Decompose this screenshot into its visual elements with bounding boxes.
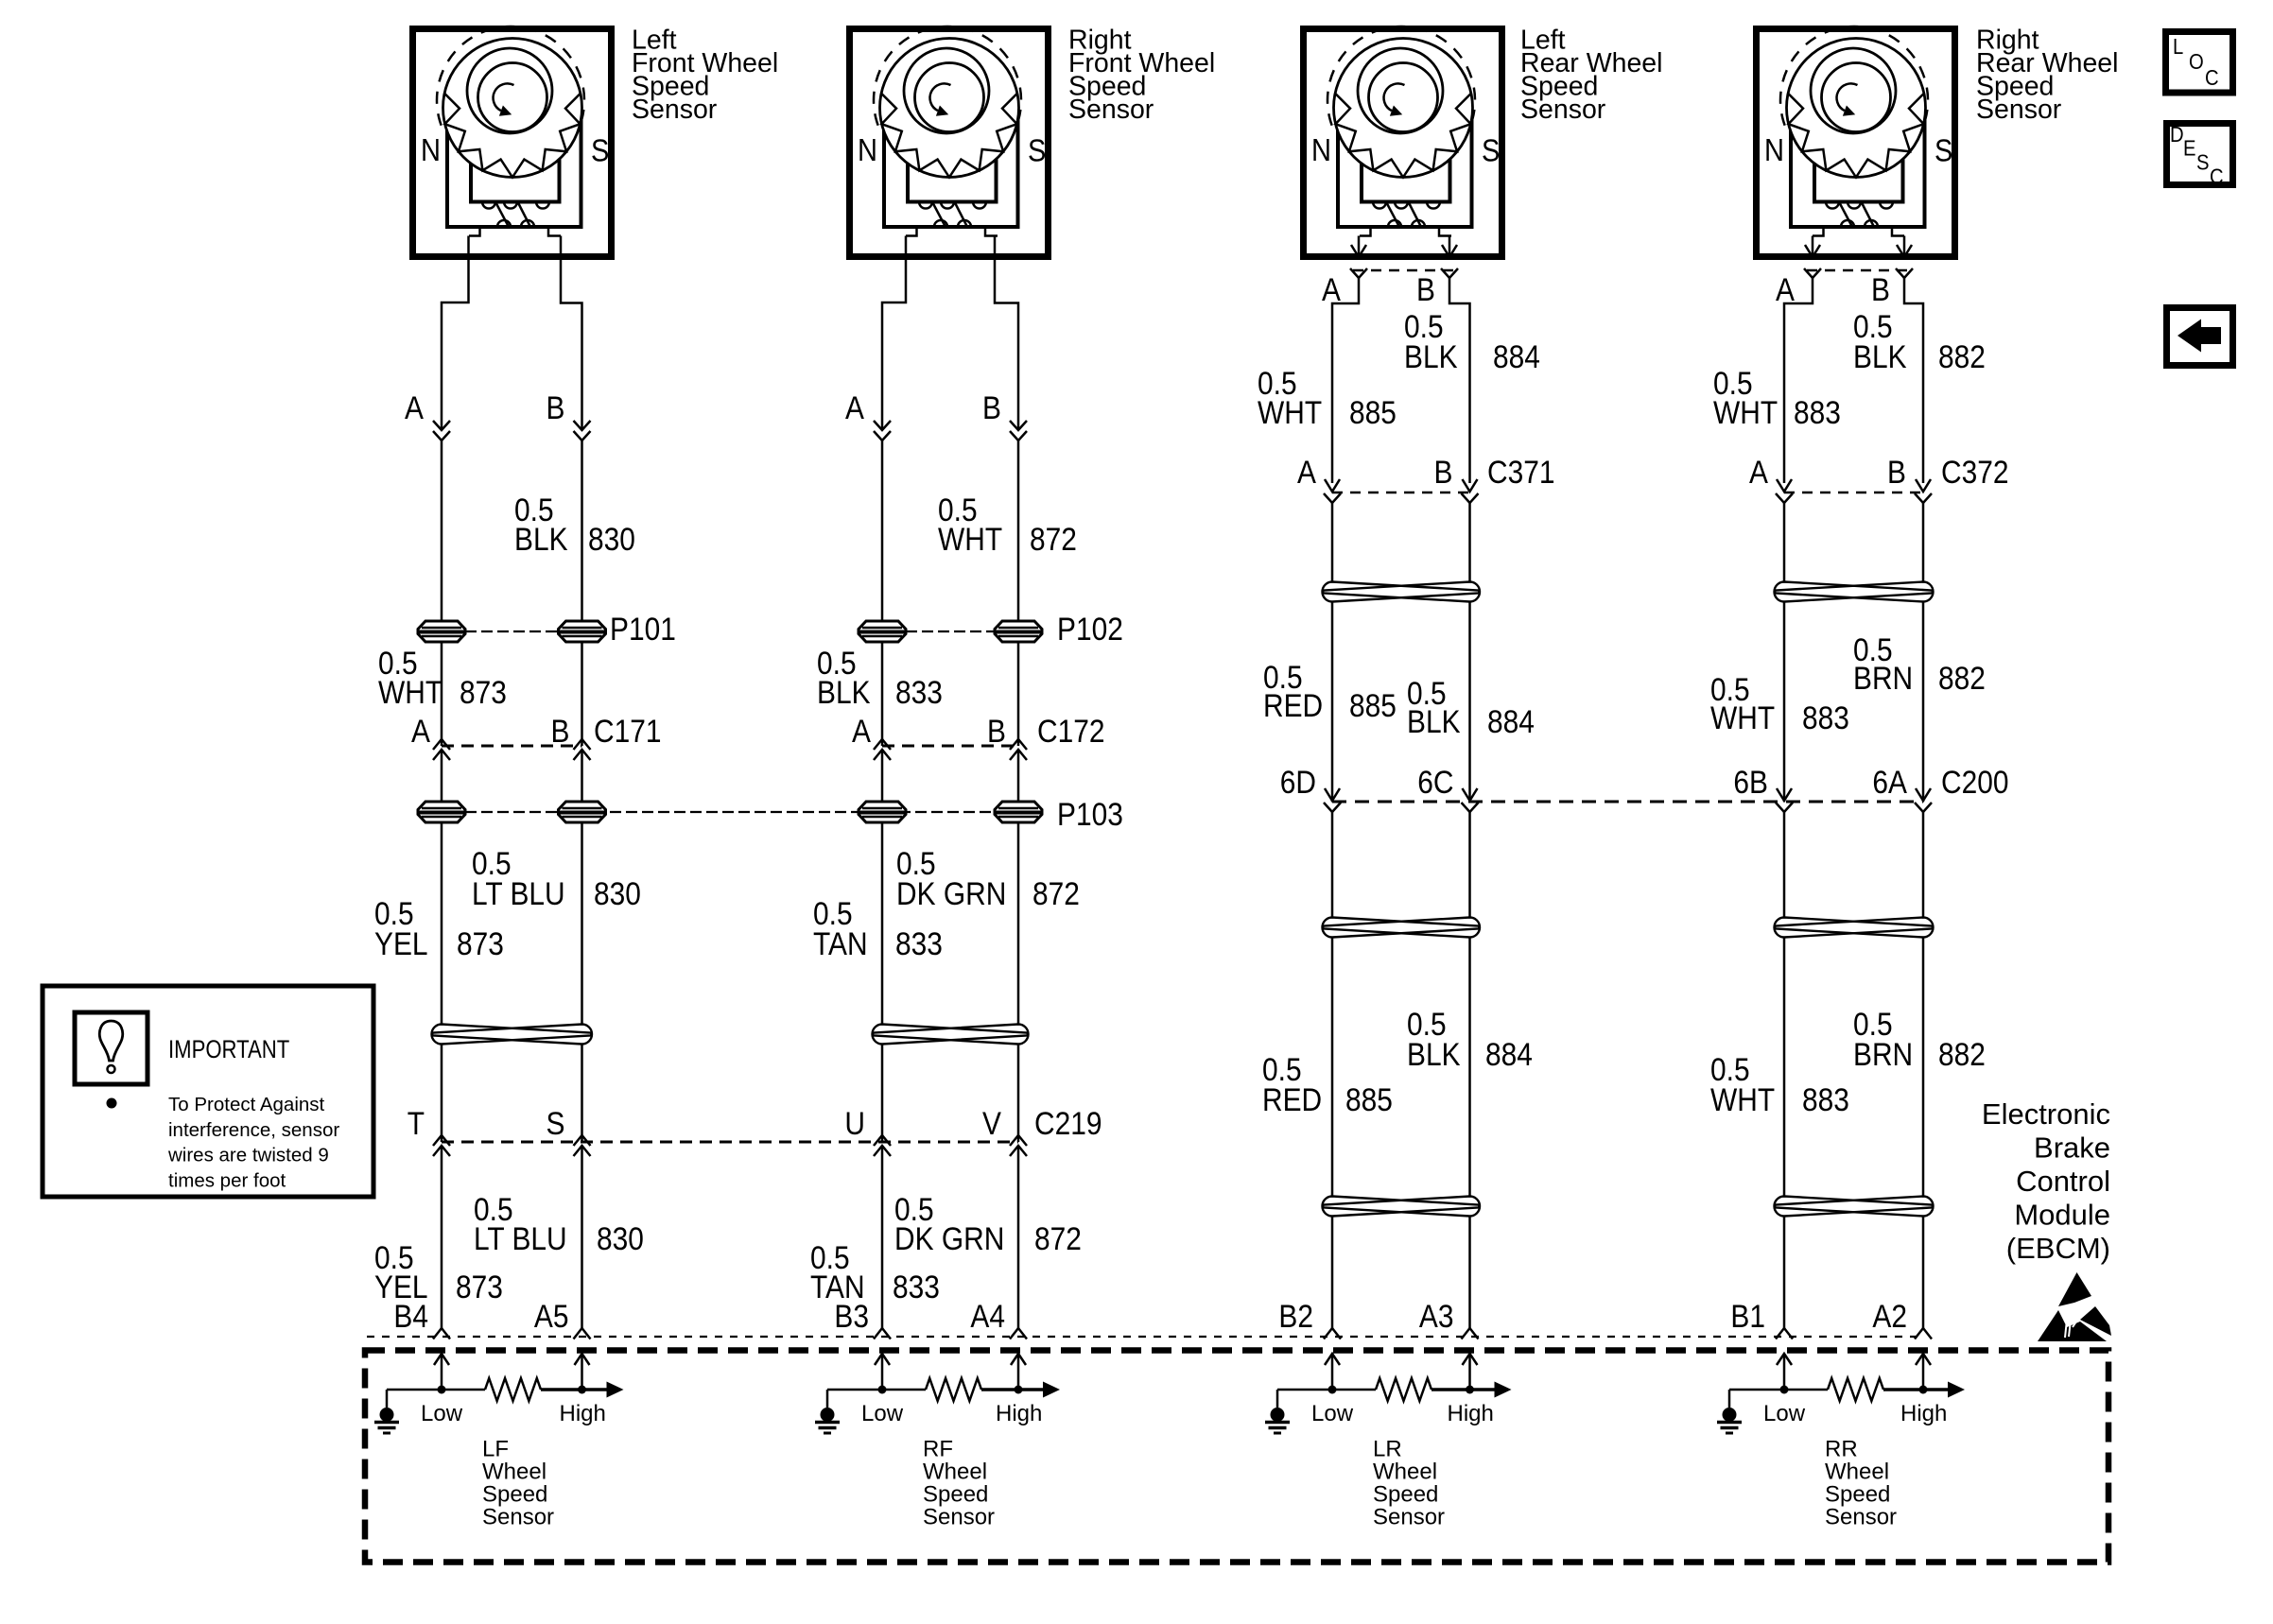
svg-text:Sensor: Sensor bbox=[1520, 95, 1606, 125]
EBCM RF channel label bbox=[923, 1437, 995, 1530]
sensor LR - coil winding bbox=[1373, 202, 1386, 209]
sensor RF - tone wheel bbox=[880, 39, 1019, 178]
EBCM LR ground bbox=[1276, 1390, 1279, 1408]
EBCM pin fork A3 bbox=[1462, 1328, 1479, 1339]
grommet P102 on wire B bbox=[995, 621, 1042, 642]
grommet P101 dashed link bbox=[465, 631, 559, 632]
svg-text:C: C bbox=[2210, 164, 2224, 189]
LR wire A segment to twist 3 bbox=[1331, 938, 1334, 1196]
svg-text:WHT: WHT bbox=[1710, 700, 1775, 735]
RF wire B segment to twist bbox=[1017, 822, 1020, 1024]
svg-text:872: 872 bbox=[1034, 1220, 1082, 1256]
svg-text:N: N bbox=[1311, 132, 1331, 167]
grommet P103 on RF wire A bbox=[859, 802, 906, 822]
svg-text:B: B bbox=[551, 713, 570, 749]
connector C171 terminals wire B bbox=[574, 739, 591, 750]
svg-text:RF: RF bbox=[923, 1437, 953, 1462]
EBCM LF junction node A bbox=[438, 1386, 446, 1394]
sensor LF - coil winding bbox=[482, 202, 495, 209]
LR sensor lead B with arrow bbox=[1449, 236, 1451, 257]
svg-text:873: 873 bbox=[456, 1269, 503, 1304]
sensor RF - title label bbox=[1068, 26, 1215, 126]
svg-text:S: S bbox=[1482, 133, 1500, 168]
IMPORTANT note box bbox=[43, 986, 373, 1197]
EBCM RR junction node B bbox=[1919, 1386, 1928, 1394]
svg-text:B4: B4 bbox=[393, 1298, 428, 1334]
svg-text:Electronic: Electronic bbox=[1982, 1097, 2110, 1131]
svg-text:T: T bbox=[408, 1105, 425, 1141]
LF wire B - sensor lead with jog bbox=[561, 236, 582, 431]
EBCM RF junction node A bbox=[878, 1386, 887, 1394]
svg-text:Wheel: Wheel bbox=[482, 1460, 547, 1485]
RR sensor connector fork A bbox=[1804, 268, 1821, 278]
wheel speed sensor RF - outer box bbox=[850, 29, 1049, 257]
connector C172 terminals wire B bbox=[1010, 739, 1027, 750]
sensor RR - magnet yoke bbox=[1791, 120, 1925, 227]
connector C372 terminal arrows wire B bbox=[1916, 479, 1931, 492]
sensor LR - lead pedestal bbox=[1360, 227, 1371, 236]
svg-text:Speed: Speed bbox=[923, 1482, 988, 1508]
RF wire B segment to P103 bbox=[1017, 750, 1020, 801]
LR wire A segment to twist 1 bbox=[1331, 503, 1334, 581]
RF wire A - sensor lead with jog bbox=[882, 236, 906, 431]
EBCM RF wire resistor to High bbox=[981, 1388, 1043, 1391]
LR sensor connector dashed line bbox=[1353, 269, 1455, 272]
svg-text:BRN: BRN bbox=[1853, 660, 1913, 696]
sensor RF - coil winding bbox=[919, 202, 932, 209]
important icon exclamation bbox=[99, 1021, 122, 1061]
svg-text:E: E bbox=[2183, 135, 2196, 161]
svg-text:C372: C372 bbox=[1941, 454, 2009, 490]
EBCM LF input A arrow bbox=[441, 1356, 443, 1390]
RF wire B segment to C219 bbox=[1017, 1045, 1020, 1142]
sensor LR - tone wheel teeth bbox=[1335, 94, 1471, 178]
sensor LR - rotation arrow bbox=[1384, 83, 1405, 111]
sensor RR - exciter ring (dashed circle) bbox=[1780, 26, 1928, 126]
grommet P103 on LF wire A bbox=[418, 802, 465, 822]
sensor LR - pole core bbox=[1362, 120, 1450, 202]
connector C200 terminal arrows RR wire B bbox=[1916, 788, 1931, 801]
svg-text:TAN: TAN bbox=[813, 925, 868, 961]
LOC legend box bbox=[2166, 32, 2233, 94]
sensor RR - tone wheel teeth bbox=[1788, 94, 1924, 178]
sensor RF - rotation arrow bbox=[930, 83, 951, 111]
sensor LR - hub circles bbox=[1358, 48, 1443, 133]
LR wire A jog bbox=[1332, 278, 1359, 483]
svg-text:883: 883 bbox=[1802, 700, 1849, 735]
LR wire B label BLK 884 bbox=[1407, 675, 1535, 739]
wheel speed sensor LF - outer box bbox=[413, 29, 612, 257]
EBCM pin fork B3 bbox=[874, 1328, 891, 1339]
RR wire B label BRN 882 bbox=[1853, 631, 1986, 696]
EBCM RF High output arrow bbox=[1043, 1382, 1060, 1398]
connector C219 terminals RF wire B bbox=[1010, 1135, 1027, 1146]
EBCM RR input B arrow bbox=[1922, 1356, 1925, 1390]
svg-text:High: High bbox=[996, 1401, 1042, 1426]
EBCM LF input B arrow bbox=[581, 1356, 583, 1390]
grommet P103 long dashed line bbox=[465, 811, 1042, 813]
LR sensor connector fork B bbox=[1441, 268, 1458, 278]
svg-text:WHT: WHT bbox=[938, 521, 1002, 557]
svg-text:WHT: WHT bbox=[1713, 394, 1778, 430]
back arrow icon bbox=[2178, 320, 2221, 353]
svg-text:883: 883 bbox=[1794, 394, 1841, 430]
EBCM RR input A arrow bbox=[1783, 1356, 1786, 1390]
svg-text:Sensor: Sensor bbox=[482, 1505, 554, 1530]
connector C172 terminals wire A bbox=[874, 739, 891, 750]
LF wire B - inline connector arrows bbox=[574, 421, 591, 430]
svg-text:833: 833 bbox=[893, 1269, 940, 1304]
RR wire B segment to twist 3 bbox=[1922, 938, 1925, 1196]
sensor RR - pole core bbox=[1814, 120, 1903, 202]
EBCM RR ground bbox=[1728, 1390, 1731, 1408]
svg-text:B2: B2 bbox=[1278, 1298, 1313, 1334]
svg-text:830: 830 bbox=[588, 521, 635, 557]
EBCM LF channel label bbox=[482, 1437, 554, 1530]
RF wire B - inline connector arrows bbox=[1010, 421, 1027, 430]
svg-text:D: D bbox=[2170, 122, 2184, 147]
svg-text:B3: B3 bbox=[834, 1298, 869, 1334]
EBCM connector pin row (thin dashed line) bbox=[367, 1336, 1919, 1338]
EBCM RR wire resistor to High bbox=[1883, 1388, 1948, 1391]
svg-text:884: 884 bbox=[1487, 703, 1535, 739]
RF wire B segment to C172 bbox=[1017, 642, 1020, 746]
EBCM LF junction node B bbox=[578, 1386, 586, 1394]
LF wire A - sensor lead with jog bbox=[442, 236, 469, 431]
svg-text:LT BLU: LT BLU bbox=[474, 1220, 567, 1256]
svg-text:Sensor: Sensor bbox=[1825, 1505, 1897, 1530]
grommet P103 on LF wire B bbox=[559, 802, 606, 822]
svg-text:S: S bbox=[591, 133, 609, 168]
connector C371 terminal arrows wire A bbox=[1325, 479, 1340, 492]
connector C219 terminals RF wire A bbox=[874, 1135, 891, 1146]
grommet P101 on wire A bbox=[418, 621, 465, 642]
connector C172 dashed line bbox=[882, 745, 1018, 748]
sensor LR - title label bbox=[1520, 26, 1662, 126]
svg-text:A2: A2 bbox=[1872, 1298, 1907, 1334]
LF wire B label LT BLU 830 bbox=[474, 1191, 644, 1256]
svg-text:Wheel: Wheel bbox=[1825, 1460, 1889, 1485]
svg-text:6B: 6B bbox=[1733, 764, 1768, 800]
LF wire B label BLK 830 bbox=[514, 492, 635, 557]
EBCM pin fork B2 bbox=[1324, 1328, 1341, 1339]
svg-text:Sensor: Sensor bbox=[1373, 1505, 1445, 1530]
svg-text:BLK: BLK bbox=[817, 674, 871, 710]
connector C200 terminal arrows LR wire B bbox=[1463, 788, 1478, 801]
connector C171 terminals wire A bbox=[433, 739, 450, 750]
EBCM RR High output arrow bbox=[1948, 1382, 1965, 1398]
wheel speed sensor LR - outer box bbox=[1304, 29, 1502, 257]
LR wire B segment to EBCM pin A3 bbox=[1468, 1217, 1471, 1328]
EBCM LR junction node B bbox=[1466, 1386, 1474, 1394]
svg-text:B: B bbox=[1434, 454, 1453, 490]
EBCM LR input B arrow bbox=[1468, 1356, 1471, 1390]
RR wire A label WHT 883 bbox=[1710, 671, 1849, 735]
RF wire A label TAN 833 bbox=[813, 895, 943, 961]
svg-text:833: 833 bbox=[895, 925, 943, 961]
svg-text:883: 883 bbox=[1802, 1081, 1849, 1117]
EBCM RF junction node B bbox=[1015, 1386, 1023, 1394]
sensor RR - lead pedestal bbox=[1813, 227, 1824, 236]
svg-text:882: 882 bbox=[1938, 1036, 1986, 1072]
EBCM LR input A arrow bbox=[1331, 1356, 1334, 1390]
svg-text:LT BLU: LT BLU bbox=[472, 875, 565, 911]
sensor LR - tone wheel bbox=[1334, 39, 1473, 178]
svg-text:DK GRN: DK GRN bbox=[894, 1220, 1004, 1256]
RR wire B label BRN 882 bbox=[1853, 1006, 1986, 1072]
LR wire B segment to twist 2 bbox=[1468, 812, 1471, 917]
svg-text:(EBCM): (EBCM) bbox=[2006, 1232, 2110, 1265]
RR wire B segment to C200 bbox=[1922, 602, 1925, 802]
grommet P103 on RF wire B bbox=[995, 802, 1042, 822]
RF wire B label DK GRN 872 bbox=[896, 845, 1080, 911]
LF wire A segment to grommet P101 bbox=[441, 441, 443, 621]
svg-text:Sensor: Sensor bbox=[1976, 95, 2062, 125]
svg-text:YEL: YEL bbox=[374, 925, 428, 961]
EBCM RR junction node A bbox=[1780, 1386, 1789, 1394]
svg-text:N: N bbox=[421, 132, 441, 167]
svg-text:B: B bbox=[547, 389, 565, 425]
RF twisted pair symbol bbox=[873, 1025, 1028, 1045]
svg-text:RED: RED bbox=[1263, 687, 1323, 723]
svg-text:Wheel: Wheel bbox=[1373, 1460, 1437, 1485]
RF wire A segment to twist bbox=[881, 822, 884, 1024]
grommet P102 on wire A bbox=[859, 621, 906, 642]
svg-text:To Protect Against: To Protect Against bbox=[168, 1094, 325, 1115]
svg-text:S: S bbox=[1935, 133, 1952, 168]
sensor LF - hub circles bbox=[467, 48, 552, 133]
RR sensor connector dashed line bbox=[1807, 269, 1910, 272]
svg-text:S: S bbox=[547, 1105, 565, 1141]
RR wire A segment to twist 3 bbox=[1783, 938, 1786, 1196]
svg-text:830: 830 bbox=[597, 1220, 644, 1256]
svg-text:Module: Module bbox=[2014, 1199, 2110, 1232]
EBCM LF bus wire bbox=[387, 1389, 485, 1391]
EBCM RF sense resistor bbox=[926, 1378, 981, 1401]
RF wire B segment to EBCM pin A4 bbox=[1017, 1146, 1020, 1328]
EBCM RR sense resistor bbox=[1828, 1378, 1883, 1401]
RR wire A segment to twist 1 bbox=[1783, 503, 1786, 581]
LF wire B segment to P103 bbox=[581, 750, 583, 801]
connector C371 terminal arrows wire B bbox=[1463, 479, 1478, 492]
RF wire A segment to EBCM pin B3 bbox=[881, 1146, 884, 1328]
svg-text:A: A bbox=[1776, 271, 1796, 307]
RR sensor connector fork B bbox=[1896, 268, 1913, 278]
svg-text:RED: RED bbox=[1262, 1081, 1322, 1117]
svg-text:N: N bbox=[858, 132, 877, 167]
LR wire B label BLK 884 bbox=[1404, 308, 1540, 374]
svg-text:DK GRN: DK GRN bbox=[896, 875, 1006, 911]
svg-text:BLK: BLK bbox=[1404, 338, 1458, 374]
svg-text:LR: LR bbox=[1373, 1437, 1402, 1462]
important bullet bbox=[107, 1098, 117, 1109]
svg-text:N: N bbox=[1764, 132, 1784, 167]
svg-text:A: A bbox=[1322, 271, 1342, 307]
connector C171 dashed line bbox=[442, 745, 582, 748]
LF wire A segment to twist bbox=[441, 822, 443, 1024]
svg-text:A: A bbox=[845, 389, 865, 425]
LR wire A segment to twist 2 bbox=[1331, 812, 1334, 917]
sensor RR - hub circles bbox=[1811, 48, 1896, 133]
svg-text:LF: LF bbox=[482, 1437, 509, 1462]
svg-text:BLK: BLK bbox=[1853, 338, 1907, 374]
svg-text:Sensor: Sensor bbox=[1068, 95, 1154, 125]
LR wire B segment to C200 bbox=[1468, 602, 1471, 802]
svg-text:C171: C171 bbox=[594, 713, 662, 749]
svg-text:A: A bbox=[411, 713, 431, 749]
svg-text:A: A bbox=[405, 389, 425, 425]
svg-text:Low: Low bbox=[1311, 1401, 1354, 1426]
svg-text:Speed: Speed bbox=[1373, 1482, 1438, 1508]
EBCM RF bus wire bbox=[827, 1389, 926, 1391]
LF wire A segment to P103 bbox=[441, 750, 443, 801]
svg-text:C200: C200 bbox=[1941, 764, 2009, 800]
LR wire A segment to EBCM pin B2 bbox=[1331, 1217, 1334, 1328]
svg-text:B1: B1 bbox=[1730, 1298, 1765, 1334]
svg-text:885: 885 bbox=[1349, 687, 1397, 723]
sensor RF - lead pedestal bbox=[906, 227, 917, 236]
LF wire B segment to EBCM pin A5 bbox=[581, 1146, 583, 1328]
svg-text:S: S bbox=[2196, 149, 2210, 175]
svg-text:B: B bbox=[987, 713, 1006, 749]
connector C219 dashed line across front columns bbox=[442, 1141, 1018, 1144]
svg-text:6D: 6D bbox=[1280, 764, 1316, 800]
EBCM LF wire resistor to High bbox=[541, 1388, 607, 1391]
connector C219 terminals LF wire A bbox=[433, 1135, 450, 1146]
svg-text:873: 873 bbox=[460, 674, 507, 710]
sensor LF - magnet yoke bbox=[447, 120, 581, 227]
svg-text:A: A bbox=[1749, 454, 1769, 490]
LR twisted pair symbol 2 bbox=[1323, 918, 1480, 938]
RR wire B jog bbox=[1904, 278, 1923, 483]
svg-text:A4: A4 bbox=[970, 1298, 1005, 1334]
svg-text:Wheel: Wheel bbox=[923, 1460, 987, 1485]
svg-text:884: 884 bbox=[1493, 338, 1540, 374]
RR twisted pair symbol 1 bbox=[1775, 582, 1933, 602]
svg-text:Low: Low bbox=[1763, 1401, 1806, 1426]
svg-text:BLK: BLK bbox=[1407, 1036, 1461, 1072]
svg-text:B: B bbox=[1416, 271, 1435, 307]
svg-text:WHT: WHT bbox=[1258, 394, 1322, 430]
RF wire A segment to C219 bbox=[881, 1045, 884, 1142]
EBCM LR sense resistor bbox=[1376, 1378, 1431, 1401]
LR wire A label RED 885 bbox=[1263, 659, 1397, 723]
RR sensor lead A with arrow bbox=[1812, 236, 1814, 257]
EBCM pin fork A2 bbox=[1915, 1328, 1932, 1339]
LF wire A - inline connector arrows bbox=[433, 421, 450, 430]
svg-text:A3: A3 bbox=[1419, 1298, 1454, 1334]
connector C200 dashed line across rear columns bbox=[1332, 801, 1923, 803]
LF twisted pair symbol bbox=[432, 1025, 592, 1045]
RR wire B segment to EBCM pin A2 bbox=[1922, 1217, 1925, 1328]
RR twisted pair symbol 2 bbox=[1775, 918, 1933, 938]
EBCM RF input A arrow bbox=[881, 1356, 884, 1390]
EBCM pin fork B1 bbox=[1776, 1328, 1793, 1339]
RR wire A segment to C200 bbox=[1783, 602, 1786, 802]
RF wire B segment to grommet P102 bbox=[1017, 441, 1020, 621]
EBCM RF input B arrow bbox=[1017, 1356, 1020, 1390]
RR wire A label WHT 883 bbox=[1713, 365, 1841, 430]
svg-text:High: High bbox=[1448, 1401, 1494, 1426]
svg-text:IMPORTANT: IMPORTANT bbox=[168, 1036, 289, 1064]
RR twisted pair symbol 3 bbox=[1775, 1197, 1933, 1217]
svg-text:882: 882 bbox=[1938, 338, 1986, 374]
EBCM RR bus wire bbox=[1729, 1389, 1828, 1391]
svg-text:P102: P102 bbox=[1057, 611, 1123, 647]
svg-text:B: B bbox=[1887, 454, 1906, 490]
svg-text:interference, sensor: interference, sensor bbox=[168, 1119, 339, 1141]
EBCM pin fork A5 bbox=[574, 1328, 591, 1339]
svg-text:P101: P101 bbox=[610, 611, 676, 647]
svg-text:B: B bbox=[982, 389, 1001, 425]
svg-text:Speed: Speed bbox=[482, 1482, 547, 1508]
EBCM RF ground bbox=[826, 1390, 829, 1408]
svg-text:A: A bbox=[1297, 454, 1317, 490]
RR wire A segment to EBCM pin B1 bbox=[1783, 1217, 1786, 1328]
svg-text:6C: 6C bbox=[1417, 764, 1453, 800]
connector C219 terminals LF wire B bbox=[574, 1135, 591, 1146]
sensor RF - tone wheel teeth bbox=[881, 94, 1017, 178]
sensor RF - magnet yoke bbox=[884, 120, 1018, 227]
RR sensor lead B with arrow bbox=[1903, 236, 1906, 257]
svg-text:Brake: Brake bbox=[2034, 1132, 2110, 1165]
LF wire B segment to C219 bbox=[581, 1045, 583, 1142]
connector C372 dashed line bbox=[1784, 492, 1923, 494]
RF wire A label BLK 833 bbox=[817, 645, 943, 710]
svg-text:C219: C219 bbox=[1034, 1105, 1102, 1141]
svg-text:C172: C172 bbox=[1037, 713, 1105, 749]
RF wire B label WHT 872 bbox=[938, 492, 1077, 557]
RR wire A label WHT 883 bbox=[1710, 1051, 1849, 1117]
svg-text:885: 885 bbox=[1349, 394, 1397, 430]
sensor LF - tone wheel teeth bbox=[444, 94, 581, 178]
important icon box bbox=[75, 1012, 147, 1084]
svg-text:C371: C371 bbox=[1487, 454, 1555, 490]
sensor RR - coil winding bbox=[1826, 202, 1839, 209]
svg-text:Low: Low bbox=[421, 1401, 463, 1426]
LR wire A label WHT 885 bbox=[1258, 365, 1397, 430]
svg-text:High: High bbox=[1900, 1401, 1947, 1426]
RR wire B segment to twist 2 bbox=[1922, 812, 1925, 917]
sensor LF - rotation arrow bbox=[494, 83, 514, 111]
DESC legend box bbox=[2167, 124, 2233, 185]
svg-text:Speed: Speed bbox=[1825, 1482, 1890, 1508]
EBCM RR channel label bbox=[1825, 1437, 1897, 1530]
svg-text:830: 830 bbox=[594, 875, 641, 911]
EBCM pin fork B4 bbox=[433, 1328, 450, 1339]
LF wire B segment to grommet P101 bbox=[581, 441, 583, 621]
RF wire B label DK GRN 872 bbox=[894, 1191, 1082, 1256]
sensor LR - magnet yoke bbox=[1338, 120, 1472, 227]
EBCM name label bbox=[1982, 1097, 2110, 1265]
ESD sensitivity symbol bbox=[2038, 1272, 2111, 1341]
connector C371 dashed line bbox=[1332, 492, 1470, 494]
svg-text:O: O bbox=[2189, 49, 2204, 75]
RR wire A jog bbox=[1784, 278, 1813, 483]
LF wire A segment to EBCM pin B4 bbox=[441, 1146, 443, 1328]
svg-text:A: A bbox=[852, 713, 872, 749]
svg-text:872: 872 bbox=[1032, 875, 1080, 911]
LF wire B label LT BLU 830 bbox=[472, 845, 641, 911]
RF wire A segment to P103 bbox=[881, 750, 884, 801]
grommet P101 on wire B bbox=[559, 621, 606, 642]
LF wire A label WHT 873 bbox=[378, 645, 507, 710]
EBCM LF sense resistor bbox=[485, 1378, 541, 1401]
svg-text:V: V bbox=[982, 1105, 1002, 1141]
EBCM module outline (dashed box) bbox=[365, 1351, 2108, 1563]
RF wire A label TAN 833 bbox=[810, 1239, 940, 1304]
LF wire B segment to C171 bbox=[581, 642, 583, 746]
